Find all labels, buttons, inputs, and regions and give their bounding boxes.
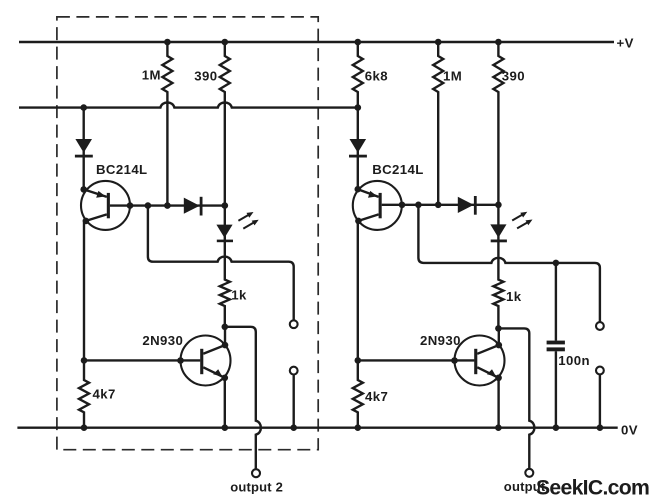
- svg-text:4k7: 4k7: [365, 389, 388, 404]
- junction dots right half: [355, 39, 604, 431]
- terminal T4: [596, 322, 604, 330]
- LED D6 symbol: [490, 224, 507, 242]
- transistor Q3 emitter lead with NPN arrow: [203, 367, 225, 427]
- wire terminal T2 to 0V rail: [293, 374, 295, 428]
- svg-text:390: 390: [502, 68, 525, 83]
- transistor Q4 2N930 circle: [455, 336, 505, 386]
- wire bypass from Q1 base junction to terminal T1 with hop over LED column: [148, 206, 294, 321]
- transistor Q2 collector lead: [358, 214, 378, 221]
- terminal T6 output: [525, 469, 533, 477]
- wire output 2 run from 1k junction over 0V rail to terminal T3: [225, 327, 261, 470]
- transistor Q3 2N930 circle: [181, 336, 231, 386]
- svg-text:2N930: 2N930: [142, 333, 183, 348]
- wire terminal T5 to 0V rail: [599, 374, 601, 427]
- svg-text:output 2: output 2: [230, 479, 283, 494]
- resistor R3 6k8 branch / diode D3 column wire: [353, 42, 363, 189]
- resistor R2 390 (left) / LED column wire with R5 1k: [220, 42, 230, 327]
- transistor Q4 emitter lead with NPN arrow: [477, 367, 498, 427]
- terminal T2: [290, 367, 298, 375]
- transistor Q4 base bar: [474, 349, 477, 374]
- svg-text:2N930: 2N930: [420, 333, 461, 348]
- capacitor C1 plates: [547, 341, 565, 352]
- capacitor C1 bottom lead: [555, 351, 557, 427]
- transistor Q2 BC214L circle: [353, 181, 402, 230]
- svg-text:BC214L: BC214L: [96, 162, 148, 177]
- second rail (input bus) with hops over 1M and 390: [19, 103, 358, 108]
- wire output run from right 1k junction over 0V rail to terminal T6: [498, 328, 534, 469]
- transistor Q1 emitter lead with PNP arrow: [84, 189, 107, 197]
- svg-text:1M: 1M: [142, 68, 161, 83]
- resistor R4 1M (right) branch wire: [433, 42, 443, 205]
- transistor Q2 emitter lead with PNP arrow: [358, 189, 379, 198]
- terminal T3 output 2: [252, 469, 260, 477]
- svg-text:6k8: 6k8: [365, 68, 388, 83]
- terminal T1: [290, 320, 298, 328]
- svg-text:BC214L: BC214L: [372, 162, 424, 177]
- capacitor C1 100n top lead: [555, 263, 557, 341]
- LED D5 symbol: [216, 225, 233, 243]
- svg-text:1k: 1k: [231, 288, 247, 303]
- transistor Q1 collector lead: [86, 214, 107, 221]
- transistor Q1 base bar: [107, 193, 110, 218]
- junction dots left half: [80, 39, 297, 431]
- LED D6 emission arrows: [512, 212, 532, 229]
- dashed enclosure box (left channel): [57, 17, 318, 450]
- transistor Q3 collector lead: [203, 327, 225, 354]
- diode D3 symbol: [349, 139, 367, 158]
- diode D2 symbol (horizontal): [184, 197, 203, 216]
- diode D1 symbol: [75, 139, 93, 158]
- wire Q3 base lead (left): [84, 359, 200, 361]
- svg-text:4k7: 4k7: [93, 387, 116, 402]
- +V supply rail: [19, 41, 614, 43]
- svg-text:1k: 1k: [506, 289, 522, 304]
- transistor Q4 collector lead: [477, 328, 499, 353]
- wire bypass from Q2 base junction to terminal T4 with hop over LED column: [418, 205, 599, 322]
- diode D1 branch wire (from rail to Q1 emitter): [82, 108, 84, 190]
- svg-text:+V: +V: [617, 35, 634, 50]
- wire collector run of Q1 down with resistor R7 4k7 to 0V: [79, 220, 89, 428]
- svg-text:0V: 0V: [621, 422, 638, 437]
- resistor R6 390 (right) / LED column wire with R8 1k: [493, 42, 503, 328]
- svg-text:1M: 1M: [443, 68, 462, 83]
- svg-text:SeekIC.com: SeekIC.com: [536, 476, 649, 499]
- svg-text:100n: 100n: [558, 353, 590, 368]
- LED D5 emission arrows: [238, 212, 258, 229]
- transistor Q2 base bar: [379, 193, 382, 218]
- terminal T5: [596, 367, 604, 375]
- resistor R1 1M (left) branch wire: [162, 42, 172, 206]
- svg-text:390: 390: [194, 68, 217, 83]
- wire collector run of Q2 down with resistor R9 4k7 to 0V: [353, 220, 363, 428]
- transistor Q3 base bar: [200, 349, 203, 374]
- wire Q4 base lead (right): [358, 359, 475, 361]
- transistor Q1 BC214L circle: [81, 181, 130, 230]
- 0V rail: [17, 427, 617, 429]
- wire Q2 base lead to 390 column: [382, 204, 499, 206]
- wire Q1 base lead to 390 column: [110, 204, 225, 206]
- diode D4 symbol (horizontal): [458, 196, 477, 215]
